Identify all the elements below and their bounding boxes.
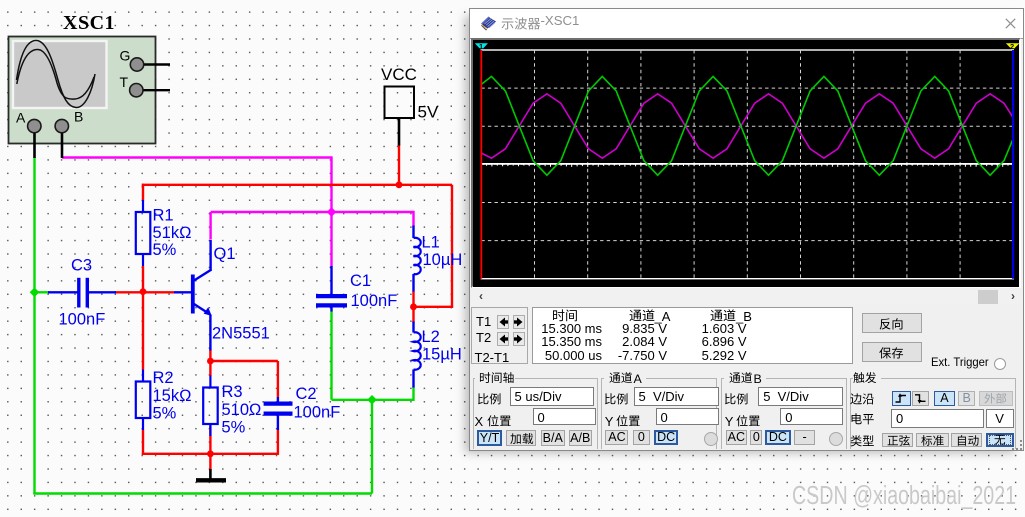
button normal	[916, 433, 949, 448]
svg-text:C1: C1	[350, 272, 371, 290]
cursor marker 2 yellow	[1006, 43, 1019, 50]
capacitor C2	[277, 397, 279, 402]
svg-text:15kΩ: 15kΩ	[153, 387, 192, 405]
T2 arrows	[497, 332, 509, 347]
svg-text:510Ω: 510Ω	[222, 401, 262, 419]
wire scope-A vertical green	[33, 158, 35, 494]
wire red to C2 top	[210, 360, 278, 362]
svg-text:5%: 5%	[153, 241, 177, 259]
wire magenta L1 top	[412, 211, 414, 227]
wire magenta collector rail	[211, 211, 332, 213]
wire red C2 bottom	[277, 430, 279, 455]
button reverse	[862, 313, 922, 333]
wire red node to R2	[142, 292, 144, 370]
node C3 tap	[30, 287, 40, 297]
wire magenta collector drop	[209, 212, 211, 240]
scrollbar thumb	[978, 290, 999, 304]
button B/A	[541, 430, 565, 446]
svg-text:15µH: 15µH	[422, 345, 462, 363]
chA radio	[704, 432, 718, 446]
button single	[882, 433, 914, 448]
node base	[140, 288, 147, 295]
wire red C3 to base	[115, 291, 175, 293]
svg-text:B: B	[74, 109, 83, 125]
cursor T2 blue line	[1012, 50, 1014, 279]
chB position	[780, 408, 843, 426]
power VCC	[385, 87, 415, 119]
button chA DC	[654, 430, 678, 445]
svg-text:1: 1	[479, 42, 483, 51]
wire green L2 bottom	[412, 387, 414, 401]
terminal B	[55, 119, 68, 132]
svg-text:A: A	[16, 110, 26, 126]
node green tee	[367, 395, 377, 405]
svg-text:5%: 5%	[222, 419, 246, 437]
resize grip	[1012, 440, 1023, 451]
wire red right drop	[451, 185, 453, 307]
terminal T	[130, 84, 143, 97]
title bar	[470, 9, 1023, 40]
T1 arrows	[497, 315, 509, 330]
oscilloscope dialog window	[469, 8, 1024, 451]
wire red VCC drop	[398, 145, 400, 185]
wire green C1 bottom	[330, 311, 332, 400]
wire red ground stub	[209, 454, 211, 470]
svg-text:51kΩ: 51kΩ	[153, 224, 192, 242]
transistor Q1	[174, 291, 191, 293]
chB radio	[829, 432, 843, 446]
chB scale	[758, 387, 843, 406]
cursor T1 red line	[480, 50, 482, 279]
wire bottom green	[33, 492, 372, 494]
svg-text:XSC1: XSC1	[63, 12, 115, 34]
graticule grid	[481, 50, 1013, 279]
edge B button	[958, 391, 975, 406]
title text	[501, 15, 543, 33]
svg-text:L1: L1	[422, 233, 440, 251]
wire red bottom rail	[142, 453, 278, 455]
button chB 0	[750, 430, 762, 445]
close button	[1003, 16, 1018, 31]
inductor L1	[412, 226, 414, 239]
button Y/T	[477, 430, 502, 446]
chA position	[656, 408, 719, 426]
svg-text:T: T	[120, 74, 129, 90]
wire red R3 bottom	[209, 426, 211, 454]
app icon	[479, 15, 497, 32]
ext trigger	[931, 355, 989, 369]
svg-text:C2: C2	[296, 385, 317, 403]
waveform channel B magenta	[481, 94, 1013, 158]
capacitor C1	[330, 266, 332, 295]
graticule frame	[481, 50, 1013, 279]
chA scale	[634, 387, 719, 406]
svg-text:2: 2	[1010, 42, 1014, 51]
wire magenta C1 top	[330, 212, 332, 267]
wire green horizontal C1-L2	[332, 399, 414, 401]
wire magenta to L1	[332, 211, 415, 213]
wire red C2 drop	[277, 361, 279, 398]
button A/B	[569, 430, 593, 446]
time axis trace	[481, 163, 1013, 165]
wire red R1 bottom	[142, 266, 144, 292]
cursor readout panel	[471, 307, 529, 364]
edge ext button (disabled)	[979, 391, 1013, 406]
inductor L2	[412, 322, 414, 333]
button chB AC	[726, 430, 748, 445]
wire green C3 stub	[35, 291, 49, 293]
svg-text:10µH: 10µH	[423, 251, 463, 269]
button chA 0	[633, 430, 650, 445]
svg-text:5V: 5V	[418, 103, 439, 122]
button save	[862, 342, 922, 362]
group boxes	[473, 378, 598, 449]
svg-text:R3: R3	[222, 383, 243, 401]
svg-text:R2: R2	[153, 369, 174, 387]
svg-text:G: G	[120, 48, 131, 64]
svg-text:2N5551: 2N5551	[212, 325, 270, 343]
node bottom rail	[207, 450, 214, 457]
wire magenta drop	[330, 158, 332, 214]
svg-text:5%: 5%	[153, 405, 177, 423]
svg-text:L2: L2	[422, 328, 440, 346]
button chA AC	[605, 430, 628, 445]
cursor marker 1 cyan	[475, 43, 488, 50]
edge falling button	[912, 391, 929, 406]
svg-text:100nF: 100nF	[59, 311, 106, 329]
button chB minus	[794, 430, 815, 445]
trigger unit	[986, 409, 1014, 427]
measurement table	[532, 307, 853, 364]
svg-text:VCC: VCC	[381, 65, 417, 84]
resistor R1	[142, 200, 144, 212]
capacitor C3	[48, 291, 78, 293]
wire green riser	[371, 400, 373, 494]
node magenta tee	[327, 207, 337, 217]
scope screen bezel	[471, 38, 1021, 288]
resistor R2	[142, 370, 144, 382]
instrument XSC1 icon	[9, 37, 156, 144]
node vcc rail	[396, 181, 403, 188]
wire red R2 bottom	[142, 430, 144, 456]
svg-text:R1: R1	[153, 207, 174, 225]
wire red top rail	[142, 184, 452, 186]
wire scope-B horizontal magenta	[62, 156, 333, 158]
ground	[209, 469, 212, 480]
scrollbar	[471, 289, 1020, 306]
button none (selected)	[986, 433, 1014, 448]
timebase scale	[510, 387, 594, 406]
terminal A	[28, 119, 41, 132]
x position	[533, 408, 597, 426]
resistor R3	[209, 376, 211, 388]
trigger level	[891, 409, 984, 427]
edge rising button (selected)	[892, 391, 911, 406]
node L1-L2	[410, 303, 417, 310]
node emitter	[207, 358, 214, 365]
wire red L1-L2 link	[412, 291, 414, 323]
svg-text:100nF: 100nF	[351, 292, 398, 310]
svg-text:100nF: 100nF	[294, 404, 341, 422]
svg-text:C3: C3	[71, 257, 92, 275]
terminal G	[130, 58, 143, 71]
watermark	[792, 482, 1016, 511]
edge A button (selected)	[934, 391, 956, 406]
wire red emitter node	[209, 350, 211, 377]
button load	[506, 430, 536, 446]
wire red to L node	[414, 306, 454, 308]
button chB DC	[765, 430, 791, 445]
wire red R1 top	[142, 184, 144, 201]
waveform channel A green	[481, 76, 1013, 175]
button auto	[951, 433, 982, 448]
svg-text:Q1: Q1	[214, 245, 236, 263]
